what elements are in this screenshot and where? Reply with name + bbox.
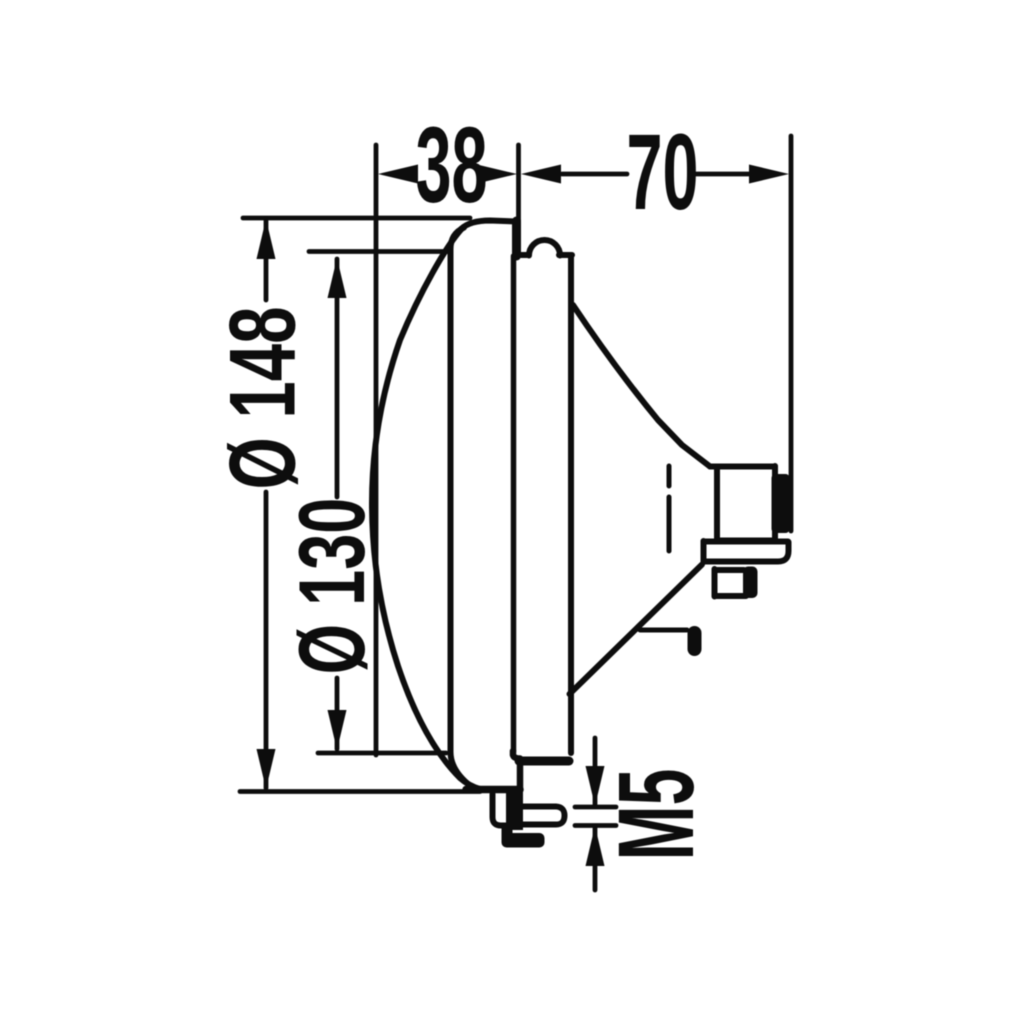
svg-text:M5: M5: [595, 769, 716, 861]
svg-text:70: 70: [626, 111, 698, 232]
svg-text:Ø 130: Ø 130: [280, 498, 385, 675]
svg-text:38: 38: [415, 104, 487, 225]
svg-text:Ø 148: Ø 148: [211, 306, 316, 489]
